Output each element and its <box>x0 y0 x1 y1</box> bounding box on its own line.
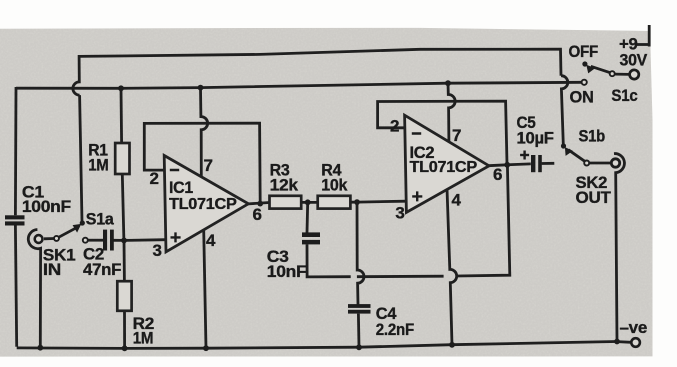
svg-text:1M: 1M <box>133 329 154 348</box>
resistor R1 <box>115 143 129 174</box>
junction dot IC1 output node <box>257 201 263 207</box>
wire: S1c pole to battery terminal <box>615 73 629 76</box>
wire: R3-R4 junction <box>301 201 318 204</box>
label +9-30V supply <box>619 35 648 70</box>
wire: -ve rail stub to terminal <box>617 340 632 343</box>
wire: IC2 pin4 with hop over feedback line <box>447 189 457 345</box>
junction dot at IC1 pin7 on +V rail <box>198 85 204 91</box>
wire: bypass hop over +V rail at right (bulge right) <box>561 76 568 145</box>
wire: IC1 feedback box pin2 side <box>144 123 260 203</box>
wire: IC1 output to R3 <box>248 203 269 204</box>
svg-text:IC1: IC1 <box>169 178 193 197</box>
svg-text:6: 6 <box>493 165 502 184</box>
wire: C5 to S1b contact <box>542 162 555 165</box>
capacitor C5 electrolytic <box>520 151 542 173</box>
svg-text:OFF: OFF <box>569 42 599 61</box>
wire: SK1 sleeve tail to -ve rail <box>28 230 40 348</box>
svg-text:10µF: 10µF <box>517 128 554 147</box>
label C5 value <box>517 113 554 147</box>
svg-text:S1c: S1c <box>611 86 637 105</box>
wire: C2 to IC1 pin3 node <box>114 238 166 241</box>
junction dot IC1 pin4 on -ve rail <box>203 345 209 351</box>
svg-text:4: 4 <box>452 191 462 210</box>
wire: S1b pole to SK2 <box>589 162 610 165</box>
wire: C2 left terminal to plates <box>88 239 103 242</box>
wire: R4 to IC2 pin3 <box>350 201 406 202</box>
wire: page edge tick at +9V <box>648 25 651 47</box>
wire: -ve bottom rail <box>17 342 617 349</box>
svg-text:7: 7 <box>204 156 213 175</box>
label SK1 IN <box>43 246 75 279</box>
svg-text:OUT: OUT <box>576 188 612 207</box>
wire: S1b pole lever <box>568 150 584 161</box>
terminal +9V battery circle <box>630 70 639 79</box>
svg-text:S1b: S1b <box>579 127 606 146</box>
svg-text:10k: 10k <box>321 175 348 194</box>
svg-text:–ve: –ve <box>620 318 648 337</box>
terminal -ve circle <box>631 338 640 347</box>
resistor R3 <box>270 196 302 209</box>
junction dot IC2 pin4 on -ve rail <box>449 342 455 348</box>
svg-text:4: 4 <box>206 231 216 250</box>
wire: R1 bottom to node <box>122 174 124 240</box>
label SK2 OUT <box>576 173 612 207</box>
junction dot R2 on -ve rail <box>122 345 128 351</box>
svg-text:30V: 30V <box>620 51 648 70</box>
label R4 value <box>321 161 348 195</box>
wire: C4 bottom to -ve rail <box>357 314 360 348</box>
junction dot SK2 tail on -ve rail <box>614 339 620 345</box>
capacitor C1 <box>5 215 25 225</box>
junction dot IC2 output node <box>504 162 510 168</box>
switch S1c <box>582 61 615 85</box>
svg-text:ON: ON <box>570 88 594 107</box>
wire: feedback line from C3 to IC2 output, hop over pin4 wire <box>357 165 510 277</box>
junction dot at R1 top on +V rail <box>118 85 124 91</box>
svg-text:TL071CP: TL071CP <box>410 159 478 176</box>
label R2 value <box>133 314 154 347</box>
junction dot R3/R4/C3 node <box>305 199 311 205</box>
wire: IC1 pin7 from +V rail with hop over feedback box <box>201 88 208 177</box>
svg-text:100nF: 100nF <box>22 197 71 216</box>
resistor R4 <box>318 196 351 209</box>
jack SK1 tip ring <box>35 235 43 243</box>
capacitor C4 <box>348 304 371 313</box>
wire: R2 bottom to -ve rail <box>123 311 126 349</box>
label C2 value <box>83 245 121 279</box>
svg-text:10nF: 10nF <box>267 262 307 281</box>
svg-text:S1a: S1a <box>86 209 114 228</box>
junction dot at IC2 pin7 on +V rail <box>445 80 451 86</box>
wire: IC2 output to C5 <box>489 164 531 166</box>
wire: SK2 sleeve tail to -ve rail <box>614 154 624 342</box>
label R1 value <box>88 141 108 175</box>
svg-text:2: 2 <box>390 117 399 136</box>
wire: S1a pole lever <box>59 227 77 237</box>
svg-text:6: 6 <box>253 205 262 224</box>
junction dot node C2/R1/R2 <box>121 238 127 244</box>
capacitor C2 <box>103 230 114 251</box>
junction dot C4 on -ve rail <box>356 344 362 350</box>
svg-text:2.2nF: 2.2nF <box>376 320 414 339</box>
capacitor C2 left terminal circle <box>83 238 88 243</box>
wire: bypass hop over +V rail at left (bulge left) <box>73 49 561 95</box>
svg-text:3: 3 <box>153 241 162 260</box>
wire: C1 to -ve rail <box>15 225 16 346</box>
svg-text:7: 7 <box>452 126 461 145</box>
jack SK2 tip ring <box>611 159 619 167</box>
svg-text:47nF: 47nF <box>83 260 121 279</box>
label R3 value <box>270 161 299 195</box>
resistor R2 <box>117 281 131 311</box>
wire: C3 bottom to feedback line <box>307 244 351 277</box>
wire: S1c pole lever <box>591 66 610 72</box>
switch S1a <box>54 220 85 241</box>
wire: IC1 pin4 to -ve rail <box>204 230 206 349</box>
junction dot R4/pin3/C4 node <box>354 199 360 205</box>
capacitor C3 <box>302 232 320 244</box>
svg-text:TL071CP: TL071CP <box>169 196 237 213</box>
op-amp U2 IC2 triangle <box>405 115 489 212</box>
label C1 value <box>22 183 71 216</box>
wire: R3/R4 node down to C3 <box>306 202 310 232</box>
label IC1 name <box>169 178 237 213</box>
wire: R1 top from +V rail <box>120 88 123 143</box>
label IC2 name <box>410 143 478 176</box>
wire: node to R2 top <box>123 240 126 281</box>
wire: +9V label dash <box>637 43 650 46</box>
wire: IC2 feedback box pin2 side <box>378 101 507 164</box>
svg-text:IN: IN <box>43 260 61 279</box>
wire: bypass net from S1a up to hop <box>80 95 82 222</box>
junction dot SK1 tail on -ve rail <box>37 345 43 351</box>
wire: C4 branch hop over feedback line <box>357 202 364 304</box>
wire: +V supply rail <box>16 82 581 88</box>
svg-text:1M: 1M <box>88 156 108 175</box>
wire: SK1 tip to S1a pole <box>44 237 54 240</box>
wire: IC2 pin7 from +V rail with hop over feedback box <box>448 83 455 141</box>
wire: left branch from +V rail down to C1 <box>14 87 17 215</box>
switch S1b <box>561 143 589 165</box>
op-amp U1 IC1 triangle <box>164 156 248 252</box>
svg-text:12k: 12k <box>270 175 299 194</box>
label C4 value <box>376 304 414 339</box>
svg-text:3: 3 <box>395 204 404 223</box>
label C3 value <box>267 247 307 281</box>
svg-text:2: 2 <box>150 169 159 188</box>
